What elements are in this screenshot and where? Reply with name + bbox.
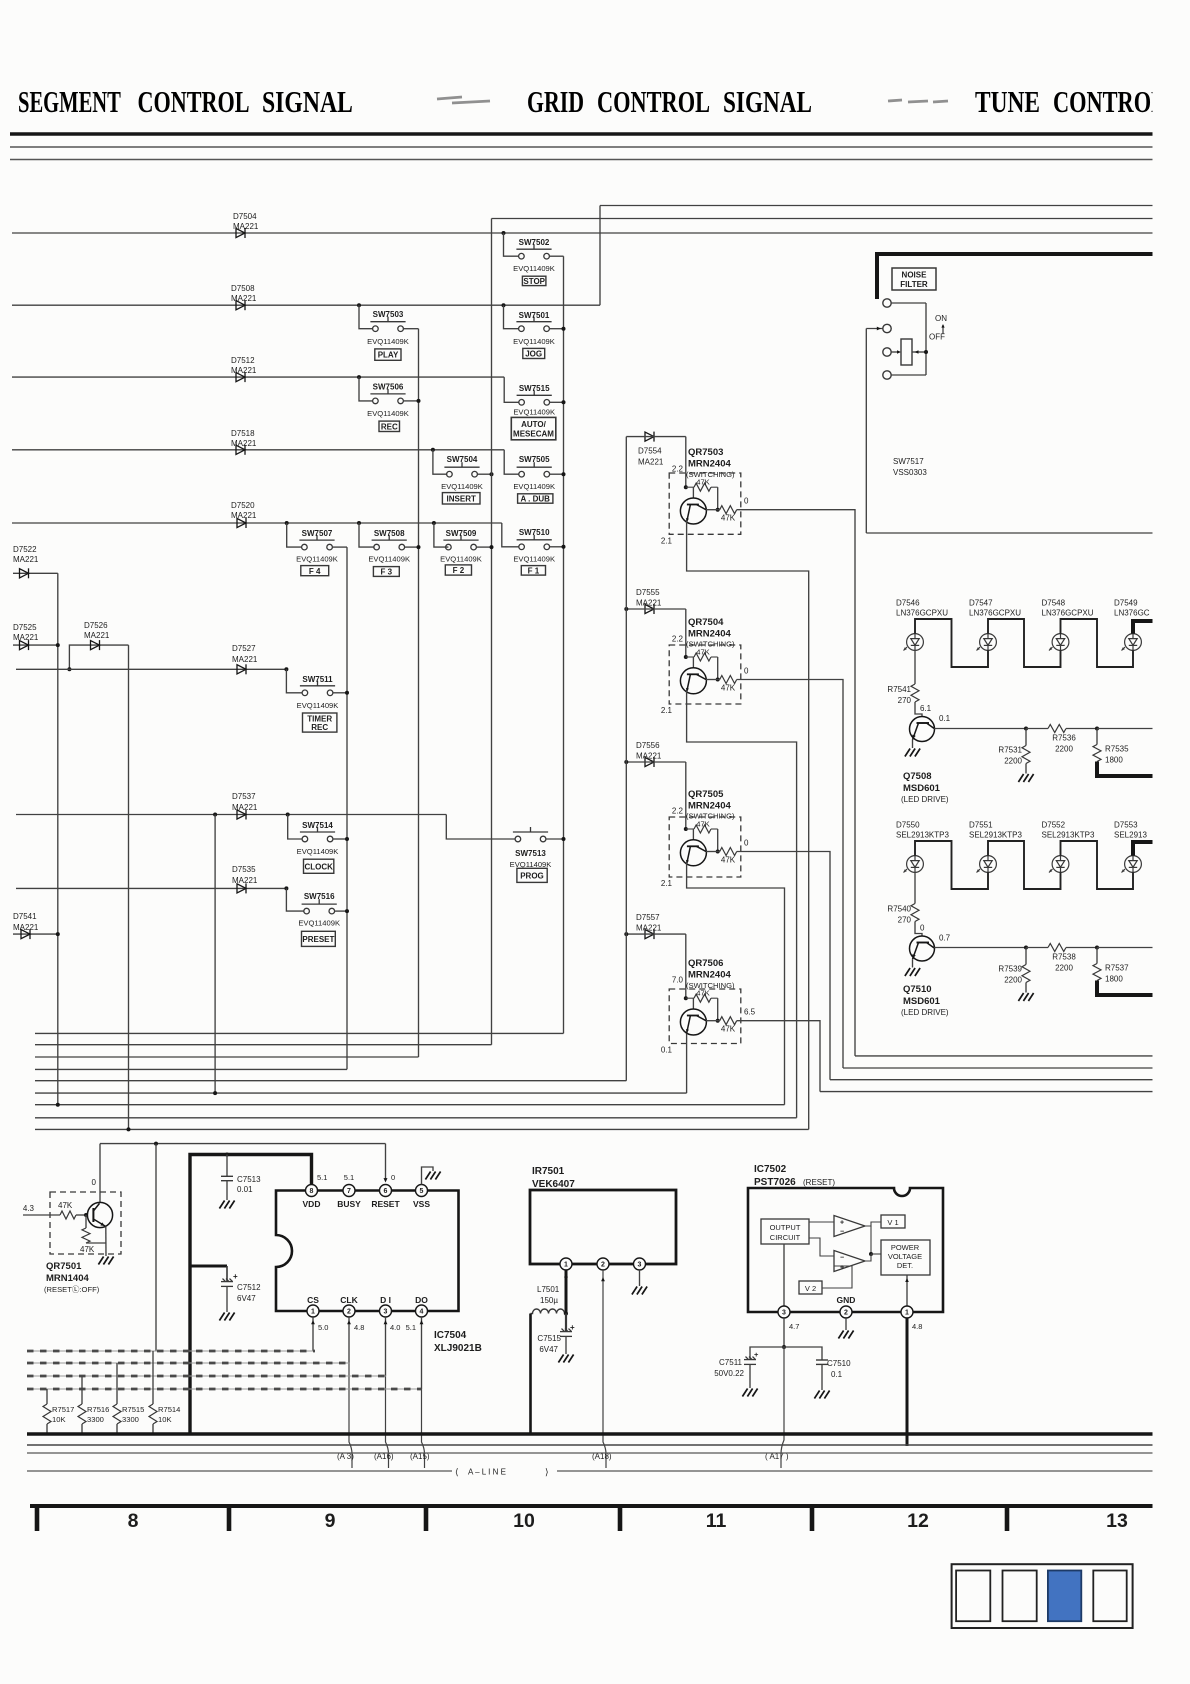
resistor R7539 2200 shunt: [1025, 948, 1027, 965]
wire pin3 A17 tail: [781, 1347, 784, 1468]
label box PRESET: [302, 931, 336, 946]
svg-text:QR7504: QR7504: [688, 617, 724, 628]
wire QR7501 shunt to emitter: [86, 1242, 106, 1244]
wire QR7503 output run: [737, 510, 855, 1056]
svg-text:MA221: MA221: [232, 803, 258, 812]
svg-text:0.1: 0.1: [661, 1046, 673, 1055]
svg-text:0.1: 0.1: [831, 1370, 843, 1379]
svg-text:REC: REC: [311, 723, 328, 732]
wire R7541 to base: [915, 702, 922, 717]
wire IR7501 pin3 to ground: [639, 1270, 641, 1286]
wire RESET drop: [385, 1144, 387, 1180]
ruler line: [30, 1504, 1155, 1508]
svg-text:TIMER: TIMER: [307, 714, 332, 723]
wire SW7509 right lead: [476, 546, 491, 548]
svg-text:13: 13: [1106, 1510, 1128, 1532]
svg-text:SW7510: SW7510: [519, 528, 550, 537]
svg-text:EVQ11409K: EVQ11409K: [297, 701, 339, 710]
svg-text:MA221: MA221: [231, 511, 257, 520]
svg-text:D7547: D7547: [969, 599, 993, 608]
wire LED serpentine: [915, 619, 988, 667]
ruler tick x37: [35, 1504, 40, 1531]
wire vertical bus x563: [563, 256, 565, 1033]
svg-text:A . DUB: A . DUB: [520, 494, 550, 503]
wire D7555 row: [626, 608, 686, 610]
junction SW7508 bus: [417, 545, 421, 549]
svg-text:BUSY: BUSY: [337, 1199, 361, 1209]
wire row D7537 y814: [16, 814, 446, 816]
resistor R7540: [914, 872, 916, 903]
svg-text:RESET: RESET: [371, 1199, 400, 1209]
wire QR7503 emitter route: [687, 521, 809, 1129]
svg-text:MA221: MA221: [232, 655, 258, 664]
svg-text:C7515: C7515: [537, 1334, 561, 1343]
switch SW7514: [300, 827, 335, 842]
op-amp comparator 2: [834, 1251, 865, 1272]
nav outer box: [952, 1564, 1133, 1628]
svg-text:SIGNAL: SIGNAL: [262, 84, 353, 119]
svg-text:C7510: C7510: [827, 1359, 851, 1368]
transistor QR7503: [680, 498, 706, 524]
wire vertical x156: [155, 1144, 157, 1351]
svg-text:R7535: R7535: [1105, 745, 1129, 754]
transistor Q7508: [910, 717, 935, 742]
wire SW7508 right lead: [405, 546, 419, 548]
wire QR7506 output band line to right edge: [820, 1091, 1155, 1093]
wire band bus y1033: [35, 1032, 564, 1034]
ground IC7502 pin2: [838, 1331, 853, 1339]
capacitor C7510: [784, 1347, 822, 1360]
wire SW7517 pole 4: [891, 374, 926, 376]
junction SW7502 tap: [502, 231, 506, 235]
svg-text:47K: 47K: [696, 647, 710, 656]
svg-text:R7514: R7514: [158, 1405, 180, 1414]
junction band x128: [127, 1127, 131, 1131]
switch SW7517 contact 4: [883, 371, 891, 379]
svg-text:(RESET): (RESET): [803, 1178, 835, 1187]
svg-text:0: 0: [744, 497, 749, 506]
wire band bus y1093: [35, 1092, 687, 1094]
wire SW7506 left lead: [359, 377, 372, 401]
box V2: [799, 1281, 822, 1294]
scribble mark 2: [888, 100, 948, 102]
wire node 0 top run: [100, 1143, 386, 1145]
wire QR7506 feedback drop: [717, 998, 719, 1021]
wire SW7517 common to left rail: [866, 328, 883, 330]
label box TIMER REC: [303, 713, 337, 732]
svg-text:POWER: POWER: [891, 1243, 920, 1252]
svg-text:MESECAM: MESECAM: [513, 430, 554, 439]
wire row D7508 y305: [12, 304, 600, 306]
wire band bus y1057: [35, 1056, 419, 1058]
wire SW7517 left rail down: [865, 329, 867, 534]
capacitor C7511 electrolytic: [750, 1347, 784, 1360]
LED D7549: [1122, 634, 1142, 651]
transistor QR7504: [680, 668, 706, 694]
resistor QR7505 47K base: [684, 827, 688, 831]
svg-text:OFF: OFF: [929, 333, 945, 342]
junction SW7508 tap: [357, 521, 361, 525]
svg-text:MA221: MA221: [636, 924, 662, 933]
header rule thick: [10, 132, 1155, 136]
wire QR7506 emitter route: [686, 1034, 688, 1094]
svg-text:5.1: 5.1: [317, 1173, 327, 1182]
switch SW7502: [516, 244, 551, 259]
svg-text:D7537: D7537: [232, 792, 256, 801]
wire SW7515 right lead: [550, 401, 564, 403]
wire QR7506 collector out: [706, 1020, 720, 1022]
svg-text:Q7510: Q7510: [903, 984, 932, 995]
svg-text:2: 2: [844, 1310, 848, 1317]
svg-text:CONTROL: CONTROL: [597, 84, 710, 118]
svg-text:150µ: 150µ: [540, 1296, 558, 1305]
shielded bus line 4: [27, 1388, 422, 1390]
svg-text:10: 10: [513, 1510, 535, 1532]
diode D7522: [20, 568, 29, 578]
wire QR7506 base lead: [692, 998, 694, 1009]
wire SW7504 left lead: [433, 450, 447, 474]
wire row D7522 y573: [13, 572, 58, 574]
svg-text:2200: 2200: [1004, 757, 1022, 766]
svg-text:F 1: F 1: [528, 566, 540, 575]
wire bus top y218: [492, 218, 1156, 220]
pin 3 IC7502: [778, 1306, 790, 1318]
junction SW7510 bus: [562, 545, 566, 549]
wire CLK lead with A3 tail: [348, 1317, 350, 1363]
relay element box SW7517: [901, 339, 912, 365]
pin 5 VSS: [416, 1185, 428, 1197]
svg-text:47K: 47K: [721, 684, 736, 693]
wire band bus y1117: [35, 1117, 797, 1119]
pin 1 IR7501: [560, 1258, 572, 1270]
diode D7504: [236, 228, 245, 238]
svg-text:SW7515: SW7515: [519, 384, 550, 393]
svg-text:2200: 2200: [1004, 976, 1022, 985]
shielded bus line 2: [27, 1362, 350, 1364]
wire row D7512 y377: [12, 376, 504, 378]
LED D7551: [977, 856, 997, 873]
svg-text:2.2: 2.2: [672, 465, 684, 474]
junction QR7506 input riser: [685, 934, 687, 998]
svg-text:MA221: MA221: [84, 631, 110, 640]
block OUTPUT CIRCUIT: [761, 1219, 809, 1244]
wire thick x190 down to bus: [188, 1266, 191, 1434]
wire SW7505 left lead: [504, 450, 519, 474]
transistor QR7506: [680, 1009, 706, 1035]
svg-text:PROG: PROG: [520, 871, 544, 880]
svg-text:6V47: 6V47: [237, 1294, 256, 1303]
svg-text:EVQ11409K: EVQ11409K: [298, 919, 340, 928]
svg-text:EVQ11409K: EVQ11409K: [513, 482, 555, 491]
junction D7525 bus: [56, 643, 60, 647]
resistor R7538 2200 series: [1048, 944, 1066, 952]
ruler tick x812: [810, 1504, 815, 1531]
box V1: [881, 1215, 905, 1228]
svg-text:EVQ11409K: EVQ11409K: [513, 264, 555, 273]
junction SW7511 bus: [345, 691, 349, 695]
svg-text:0: 0: [391, 1173, 395, 1182]
svg-text:MA221: MA221: [231, 439, 257, 448]
wire Q7510 collector run: [934, 947, 1026, 949]
svg-text:MRN2404: MRN2404: [688, 629, 731, 640]
wire VSS hook to ground: [422, 1167, 434, 1185]
svg-text:VSS0303: VSS0303: [893, 468, 927, 477]
svg-text:1: 1: [905, 1310, 909, 1317]
svg-text:3300: 3300: [87, 1415, 104, 1424]
wire SW7514 right lead: [333, 838, 347, 840]
IC IC7502 outline: [748, 1188, 943, 1312]
switch SW7504: [444, 462, 479, 477]
label box F3: [373, 567, 399, 577]
svg-text:6: 6: [384, 1188, 388, 1195]
diode D7527: [237, 664, 246, 674]
ground R7539: [1018, 993, 1033, 1001]
svg-text:L7501: L7501: [537, 1285, 560, 1294]
svg-text:MA221: MA221: [638, 458, 664, 467]
svg-text:F 3: F 3: [381, 568, 393, 577]
wire SW7511 right lead: [333, 692, 347, 694]
svg-text:SW7516: SW7516: [304, 892, 335, 901]
svg-text:10K: 10K: [158, 1415, 172, 1424]
wire DI lead with A16 tail: [385, 1317, 387, 1376]
wire SW7507 left lead: [287, 523, 302, 547]
label box PLAY: [375, 349, 401, 360]
ground C7510: [814, 1391, 829, 1399]
wire D7554 row: [626, 436, 686, 438]
svg-text:EVQ11409K: EVQ11409K: [513, 555, 555, 564]
svg-text:SW7511: SW7511: [302, 675, 333, 684]
svg-text:8: 8: [310, 1188, 314, 1195]
svg-text:D7526: D7526: [84, 621, 108, 630]
wire thick top feed: [877, 254, 1155, 299]
wire node to PVD: [871, 1253, 881, 1255]
svg-text:3: 3: [638, 1262, 642, 1269]
svg-text:SIGNAL: SIGNAL: [723, 85, 812, 119]
svg-text:Q7508: Q7508: [903, 771, 932, 782]
wire QR7504 base lead: [692, 657, 694, 668]
ground R7531: [1018, 774, 1033, 782]
ground Q7510: [905, 968, 920, 976]
ground IR7501 pin3: [632, 1287, 647, 1295]
svg-text:D7504: D7504: [233, 212, 257, 221]
wire thick VDD rail: [190, 1155, 312, 1267]
scribble mark 1: [437, 97, 490, 103]
svg-text:D7518: D7518: [231, 429, 255, 438]
wire band bus y1080: [35, 1080, 626, 1082]
svg-text:QR7506: QR7506: [688, 958, 723, 969]
svg-text:+: +: [840, 1220, 844, 1227]
header rule 3: [10, 159, 1155, 161]
wire QR7504 feedback drop: [717, 657, 719, 680]
svg-text:3300: 3300: [122, 1415, 139, 1424]
switch SW7516: [302, 899, 337, 914]
svg-text:PRESET: PRESET: [302, 935, 334, 944]
junction D7541 bus: [56, 932, 60, 936]
resistor R7531 2200 shunt: [1025, 729, 1027, 746]
wire QR7505 emitter route: [687, 863, 785, 1105]
junction D7537 x215: [213, 813, 217, 817]
ruler tick x620: [618, 1504, 623, 1531]
switch SW7515: [517, 390, 552, 405]
svg-text:D7549: D7549: [1114, 599, 1138, 608]
junction L7501 C7515: [564, 1312, 568, 1316]
svg-text:50V0.22: 50V0.22: [714, 1369, 744, 1378]
svg-text:F 2: F 2: [453, 566, 465, 575]
wire SW7504 right lead: [478, 473, 492, 475]
svg-text:6.5: 6.5: [744, 1008, 756, 1017]
svg-text:6.1: 6.1: [920, 704, 932, 713]
LED D7552: [1049, 856, 1069, 873]
switch SW7501: [516, 317, 551, 332]
ground C7515: [558, 1355, 573, 1363]
svg-text:2.1: 2.1: [661, 706, 673, 715]
svg-text:MA221: MA221: [13, 923, 39, 932]
svg-text:R7538: R7538: [1052, 953, 1076, 962]
nav page 2: [1003, 1571, 1037, 1622]
svg-text:C7511: C7511: [719, 1358, 743, 1367]
svg-text:EVQ11409K: EVQ11409K: [367, 337, 409, 346]
svg-text:7: 7: [347, 1188, 351, 1195]
svg-text:9: 9: [325, 1510, 336, 1532]
svg-text:2: 2: [347, 1309, 351, 1316]
pin 7 BUSY: [343, 1185, 355, 1197]
nav page 4: [1093, 1571, 1126, 1622]
svg-text:D7556: D7556: [636, 741, 660, 750]
svg-text:47K: 47K: [721, 856, 736, 865]
svg-text:47K: 47K: [696, 989, 710, 998]
wire SW7508 left lead: [359, 523, 375, 547]
wire DO lead with A15 tail: [421, 1317, 423, 1389]
svg-text:EVQ11409K: EVQ11409K: [297, 847, 339, 856]
svg-text:+: +: [233, 1272, 238, 1281]
svg-text:ON: ON: [935, 314, 947, 323]
wire SW7511 left lead: [286, 669, 302, 693]
wire row D7525 y645: [13, 644, 58, 646]
svg-text:MSD601: MSD601: [903, 783, 941, 794]
wire vertical x58: [57, 573, 59, 1104]
bus bottom line2: [27, 1444, 1155, 1446]
diode D7557: [645, 929, 654, 939]
svg-text:8: 8: [128, 1510, 139, 1532]
junction SW7501 tap: [502, 303, 506, 307]
svg-text:SEL2913KTP3: SEL2913KTP3: [1042, 831, 1095, 840]
svg-text:LN376GCPXU: LN376GCPXU: [896, 609, 948, 618]
wire vertical x128: [128, 645, 130, 1129]
wire D7557 row: [626, 933, 686, 935]
nav page 3 active: [1048, 1571, 1081, 1622]
svg-text:47K: 47K: [721, 1025, 736, 1034]
wire SW7506 right lead: [404, 400, 419, 402]
svg-text:2.1: 2.1: [661, 536, 673, 545]
resistor QR7504 47K output: [720, 676, 737, 684]
svg-text:5.1: 5.1: [406, 1323, 416, 1332]
svg-text:D7554: D7554: [638, 447, 662, 456]
resistor R7516: [81, 1376, 83, 1404]
svg-text:VDD: VDD: [303, 1199, 321, 1209]
wire comp1 out to V1: [865, 1222, 881, 1226]
wire QR7504 output run: [737, 680, 843, 1069]
wire diode feed bus x626: [625, 437, 627, 1081]
svg-text:JOG: JOG: [525, 350, 542, 359]
svg-text:5.0: 5.0: [318, 1323, 328, 1332]
svg-text:R7537: R7537: [1105, 964, 1129, 973]
block POWER VOLTAGE DET: [881, 1240, 930, 1275]
ground C7512: [219, 1313, 234, 1321]
svg-text:VOLTAGE: VOLTAGE: [888, 1252, 922, 1261]
LED D7547: [977, 634, 997, 651]
dashed box QR7505: [669, 817, 741, 877]
svg-text:(SWITCHING): (SWITCHING): [686, 812, 735, 821]
svg-text:CS: CS: [307, 1295, 319, 1305]
pin 8 VDD: [306, 1185, 318, 1197]
svg-text:3: 3: [782, 1310, 786, 1317]
svg-text:D7522: D7522: [13, 545, 37, 554]
wire Q7510 emitter to ground: [912, 959, 914, 967]
svg-text:47K: 47K: [80, 1245, 95, 1254]
pin 4 DO: [416, 1305, 428, 1317]
ground VSS: [425, 1172, 440, 1180]
junction QR7504 input riser: [685, 609, 687, 657]
wire enclosure bottom y533: [866, 532, 1155, 534]
dashed box QR7504: [669, 645, 741, 704]
junction SW7504 bus: [490, 472, 494, 476]
wire OC to pin3: [783, 1244, 785, 1306]
wire QR7503 collector out: [706, 509, 720, 511]
bus A-LINE right segment: [557, 1470, 1155, 1472]
shielded bus line 1: [27, 1350, 315, 1352]
inductor L7501: [531, 1309, 567, 1314]
LED D7553: [1122, 856, 1142, 873]
resistor QR7506 47K base: [684, 996, 688, 1000]
svg-text:4: 4: [420, 1309, 424, 1316]
svg-text:MA221: MA221: [231, 366, 257, 375]
svg-text:2.2: 2.2: [672, 635, 684, 644]
wire SW7517 relay right lead: [912, 351, 926, 353]
page right margin: [1153, 0, 1190, 1684]
wire pin1 thick drop to bus: [906, 1318, 909, 1446]
svg-text:D7546: D7546: [896, 599, 920, 608]
ground C7513: [219, 1201, 234, 1209]
svg-text:R7541: R7541: [887, 685, 911, 694]
pin 2 IC7502: [840, 1306, 852, 1318]
svg-text:IC7504: IC7504: [434, 1330, 467, 1341]
svg-text:D7508: D7508: [231, 284, 255, 293]
svg-text:EVQ11409K: EVQ11409K: [296, 555, 338, 564]
svg-text:0: 0: [744, 667, 749, 676]
svg-text:(LED DRIVE): (LED DRIVE): [901, 1008, 949, 1017]
wire QR7505 collector out: [706, 851, 720, 853]
resistor QR7505 47K output: [720, 848, 737, 856]
svg-text:SW7517: SW7517: [893, 457, 924, 466]
label box A.DUB: [518, 494, 553, 503]
wire SW7505 right lead: [550, 473, 564, 475]
svg-text:0.1: 0.1: [939, 714, 951, 723]
wire QR7505 output band line to right edge: [830, 1079, 1155, 1081]
wire SW7510 right lead: [550, 546, 564, 548]
wire SW7513 feed from D7537 row: [446, 815, 515, 840]
diode D7555: [645, 604, 654, 614]
svg-text:FILTER: FILTER: [900, 280, 928, 289]
wire OC to comp1: [809, 1221, 834, 1223]
IC IC7504 outline: [276, 1191, 459, 1312]
junction QR7503 input riser: [685, 437, 687, 488]
switch SW7509: [443, 535, 478, 550]
wire SW7517 right vertical: [925, 303, 927, 375]
svg-text:SW7513: SW7513: [515, 849, 546, 858]
svg-text:D7557: D7557: [636, 913, 660, 922]
pin 1 CS: [307, 1305, 319, 1317]
junction D7537 SW7514 tap: [286, 813, 290, 817]
